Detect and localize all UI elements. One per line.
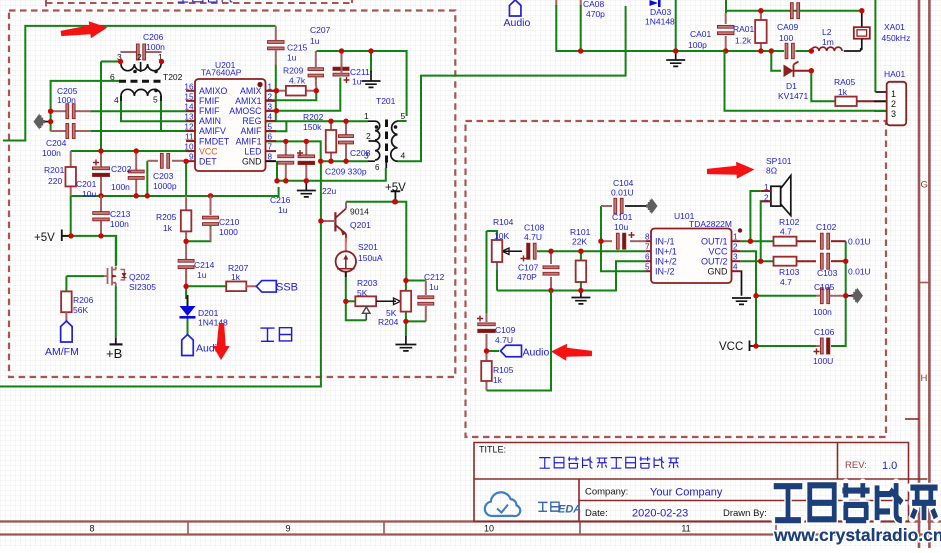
ground on rail — [580, 291, 582, 298]
potentiometer R104 — [492, 240, 503, 262]
svg-text:4: 4 — [268, 112, 273, 121]
svg-text:3: 3 — [268, 102, 273, 111]
svg-text:1.2k: 1.2k — [735, 36, 752, 46]
svg-text:7: 7 — [268, 143, 273, 152]
transformer T201 — [368, 120, 398, 169]
title block frame — [474, 443, 927, 522]
U101 pin 4 — [732, 270, 741, 272]
svg-text:13: 13 — [184, 112, 194, 121]
svg-text:2: 2 — [764, 194, 769, 203]
svg-text:450kHz: 450kHz — [882, 33, 911, 43]
capacitor CA01 100p — [725, 13, 727, 24]
wire: C104 — [601, 205, 612, 207]
svg-text:R201: R201 — [44, 165, 65, 175]
svg-text:C214: C214 — [194, 260, 215, 270]
wire top row y=10.7 — [725, 0, 727, 13]
svg-text:2020-02-23: 2020-02-23 — [632, 508, 688, 520]
capacitor C202 — [135, 151, 137, 170]
resistor R105 1k — [486, 351, 488, 361]
svg-text:+B: +B — [106, 346, 122, 361]
ground below 22u — [305, 181, 307, 190]
svg-text:9: 9 — [189, 153, 194, 162]
wire: vertical x=101 — [100, 62, 102, 152]
wire: Q201 base node — [321, 220, 335, 222]
EasyEDA logo — [485, 492, 520, 516]
svg-text:SI2305: SI2305 — [129, 282, 156, 292]
svg-text:G: G — [921, 180, 928, 191]
svg-text:C104: C104 — [613, 178, 634, 188]
svg-text:R203: R203 — [357, 278, 378, 288]
capacitor C107 470P — [543, 266, 559, 269]
svg-text:1000p: 1000p — [153, 181, 177, 191]
U201 pin 2 — [266, 100, 277, 102]
svg-text:IN+/2: IN+/2 — [655, 257, 677, 267]
svg-text:5K: 5K — [357, 288, 368, 298]
svg-text:1k: 1k — [231, 272, 241, 282]
U201 pin 6 — [266, 140, 277, 142]
svg-text:C102: C102 — [816, 222, 837, 232]
IC U101 TDA2822M — [651, 229, 732, 284]
ground below R204 — [405, 336, 407, 344]
svg-text:EDA: EDA — [558, 504, 581, 516]
svg-text:AMIXO: AMIXO — [199, 86, 228, 96]
svg-text:1: 1 — [733, 233, 738, 242]
svg-text:OUT/2: OUT/2 — [701, 257, 728, 267]
svg-text:470P: 470P — [517, 272, 537, 282]
wire: C203 left bend — [146, 161, 148, 196]
svg-text:AMIN: AMIN — [199, 116, 221, 126]
svg-text:C103: C103 — [817, 268, 838, 278]
svg-text:220: 220 — [48, 176, 62, 186]
svg-text:CA09: CA09 — [777, 22, 799, 32]
svg-text:OUT/1: OUT/1 — [701, 237, 728, 247]
wire: pin4/REG row to T201 pin1 — [266, 120, 368, 122]
svg-text:100n: 100n — [57, 95, 76, 105]
capacitor C102 — [820, 233, 823, 249]
connector HA01 — [874, 0, 876, 92]
stray dot above pin1 — [738, 228, 742, 232]
junction dots +5V row — [68, 233, 73, 238]
svg-text:C204: C204 — [46, 138, 67, 148]
wire: C101 to pin8 — [601, 240, 612, 242]
svg-text:RA05: RA05 — [834, 77, 856, 87]
svg-text:HA01: HA01 — [884, 69, 906, 79]
U201 pin 8 — [266, 160, 277, 162]
wire: R202 ties — [330, 121, 332, 130]
label 第二本振 (cut) — [177, 0, 189, 2]
svg-text:1: 1 — [364, 111, 369, 121]
wire: ground rail y=290.5 — [497, 261, 646, 290]
svg-text:R105: R105 — [493, 365, 514, 375]
svg-text:H: H — [921, 373, 928, 384]
U201 pin 13 — [186, 120, 195, 122]
capacitor C211 (1u electrolytic) — [341, 62, 343, 66]
capacitor CA09 100 (series) — [785, 43, 788, 59]
svg-text:1u: 1u — [310, 36, 320, 46]
svg-text:C108: C108 — [524, 223, 545, 233]
svg-text:2: 2 — [268, 92, 273, 101]
svg-text:RA01: RA01 — [733, 24, 755, 34]
netport Audio (top) — [509, 0, 521, 16]
svg-text:Audio: Audio — [523, 347, 550, 359]
svg-text:C101: C101 — [612, 212, 633, 222]
wire: T202 pin1 to C206 junction — [161, 62, 163, 65]
svg-text:REV:: REV: — [845, 460, 867, 471]
sheet frame right border — [919, 0, 929, 548]
wire: C216 ties — [285, 141, 287, 155]
wire: R204 top/bottom ties — [405, 281, 407, 292]
wire: C211 top tie — [341, 51, 343, 66]
U101 pin 7 — [646, 250, 651, 252]
ground at row 51 — [675, 51, 677, 60]
svg-text:XA01: XA01 — [884, 22, 905, 32]
svg-text:AM/FM: AM/FM — [45, 346, 79, 358]
svg-text:AMIF: AMIF — [240, 126, 262, 136]
wire D1 right up/down — [811, 71, 835, 102]
svg-text:CA08: CA08 — [583, 0, 605, 9]
svg-text:6: 6 — [375, 163, 380, 172]
capacitor C207 — [315, 51, 317, 67]
svg-text:6: 6 — [110, 72, 115, 82]
svg-text:R101: R101 — [570, 227, 591, 237]
svg-text:R204: R204 — [378, 317, 399, 327]
netport AM/FM — [61, 321, 73, 342]
svg-text:CA01: CA01 — [690, 29, 712, 39]
svg-text:4.7: 4.7 — [780, 227, 792, 237]
capacitor 22u electrolytic — [298, 155, 315, 158]
svg-text:Your Company: Your Company — [650, 487, 723, 499]
svg-text:1000: 1000 — [219, 227, 238, 237]
wire: speaker pin2 to OUT/2 — [741, 260, 774, 262]
resistor R206 — [61, 291, 72, 312]
svg-text:IN-/1: IN-/1 — [655, 237, 675, 247]
svg-text:FMIF: FMIF — [199, 106, 220, 116]
gray ground arrow left of C204 — [45, 121, 51, 123]
resistor R101 22K — [576, 261, 587, 283]
svg-text:2: 2 — [366, 131, 371, 141]
svg-text:11: 11 — [681, 524, 690, 534]
capacitor C216 — [278, 155, 294, 158]
wire: long top wire to C215 — [3, 26, 276, 141]
svg-text:3: 3 — [364, 151, 369, 161]
svg-text:150uA: 150uA — [358, 253, 383, 263]
wire: R201 bottom to +5V row — [70, 196, 72, 236]
svg-text:100n: 100n — [813, 307, 832, 317]
svg-text:AMIF1: AMIF1 — [236, 136, 262, 146]
junction dots REG row — [328, 119, 333, 124]
svg-text:www.crystalradio.cn: www.crystalradio.cn — [773, 525, 941, 545]
svg-text:11: 11 — [185, 133, 194, 142]
potentiometer R204 — [401, 291, 412, 312]
wire: ground stub near C211 — [370, 51, 372, 72]
sheet frame bottom border — [0, 522, 941, 535]
svg-text:4.7U: 4.7U — [524, 232, 542, 242]
netport Audio (below D201) — [182, 335, 194, 356]
wire: C212 parallel ties — [406, 280, 426, 282]
capacitor C210 — [210, 196, 212, 215]
svg-text:DET: DET — [199, 156, 217, 166]
svg-text:22K: 22K — [572, 237, 587, 247]
svg-text:R104: R104 — [493, 217, 514, 227]
red arrow down (annotation) — [213, 323, 230, 360]
wire: C204 row to pin12 — [90, 130, 195, 132]
svg-text:1: 1 — [891, 89, 896, 99]
capacitor C204 — [51, 130, 66, 132]
junction dots pin1 node — [274, 88, 279, 93]
resistor R102 4.7 — [774, 237, 797, 246]
svg-text:AMIX: AMIX — [240, 86, 262, 96]
svg-text:56K: 56K — [73, 305, 88, 315]
U201 pin 9 — [186, 160, 195, 162]
svg-text:100n: 100n — [111, 182, 130, 192]
wire: C207 bottom tie — [315, 78, 317, 87]
svg-text:C211: C211 — [350, 67, 370, 77]
svg-text:C212: C212 — [424, 272, 445, 282]
svg-text:4.7k: 4.7k — [289, 76, 306, 86]
wire: Q202 source down to +B — [115, 286, 117, 338]
resistor R103 4.7 — [774, 257, 797, 266]
svg-text:IN-/2: IN-/2 — [655, 267, 675, 277]
dashed box fragment (second LO) top — [46, 0, 352, 7]
svg-text:AMIX1: AMIX1 — [235, 96, 262, 106]
capacitor C206 — [121, 51, 137, 53]
ground near C211 — [370, 71, 372, 81]
svg-text:1k: 1k — [838, 87, 848, 97]
wire: D201 bottom to Audio port — [187, 318, 189, 335]
svg-text:3: 3 — [733, 253, 738, 262]
diode D201 1N4148 — [187, 295, 189, 306]
arrow into R204 wiper — [376, 300, 396, 302]
svg-text:10u: 10u — [82, 189, 96, 199]
svg-text:R205: R205 — [156, 212, 177, 222]
junction dots audio input net — [548, 249, 553, 254]
svg-text:1m: 1m — [822, 37, 834, 47]
U201 pin 5 — [266, 130, 277, 132]
svg-text:16: 16 — [184, 82, 194, 91]
U101 pin 5 — [646, 270, 651, 272]
svg-text:3: 3 — [891, 109, 896, 119]
wire: pin6 AMIF1 row — [266, 141, 321, 161]
transformer T202 — [119, 62, 163, 102]
wire: right ground vertical x=845.7 — [831, 241, 846, 346]
red arrow left (audio annotation) — [551, 344, 592, 361]
svg-text:1u: 1u — [287, 53, 297, 63]
svg-text:C105: C105 — [814, 282, 835, 292]
wire: C208 ties — [345, 121, 347, 135]
svg-text:REG: REG — [242, 116, 261, 126]
svg-text:C216: C216 — [270, 195, 291, 205]
svg-text:1: 1 — [268, 82, 273, 91]
svg-text:AMOSC: AMOSC — [229, 106, 262, 116]
red arrow right (speaker annotation) — [707, 162, 755, 179]
capacitor C203 — [147, 160, 158, 162]
junction dots C205/C204 — [48, 109, 53, 114]
wire: VCC row y=151 from R201 to pin10 — [71, 150, 195, 152]
wire: audio in vertical R104/C109 — [486, 231, 488, 313]
wire: C104/C101/pin5 node vertical — [601, 206, 646, 271]
wire: VCC pin2 down — [741, 251, 756, 346]
svg-text:R209: R209 — [283, 66, 304, 76]
resistor R209 — [286, 86, 306, 96]
svg-text:4: 4 — [401, 151, 406, 161]
svg-text:Company:: Company: — [585, 487, 628, 498]
U201 pin 10 — [186, 150, 195, 152]
wire: R104 top bend — [487, 231, 498, 240]
capacitor C109 4.7U — [486, 313, 488, 322]
svg-text:4.7: 4.7 — [780, 277, 792, 287]
varactor D1 KV1471 — [771, 51, 781, 71]
svg-text:Q201: Q201 — [350, 220, 371, 230]
svg-text:D1: D1 — [786, 81, 797, 91]
netport SSB — [256, 281, 276, 293]
label 中放 — [260, 328, 274, 341]
wire: +5V row y=236 — [63, 236, 116, 265]
svg-text:10: 10 — [484, 524, 494, 534]
crystal XA01 450kHz — [844, 50, 861, 52]
svg-text:0.01U: 0.01U — [611, 188, 634, 198]
wire: T202 pin3 to C206 junction — [120, 62, 122, 65]
svg-text:5: 5 — [645, 263, 650, 272]
svg-text:1u: 1u — [352, 77, 362, 87]
U201 pin 12 — [186, 130, 195, 132]
svg-text:S201: S201 — [358, 242, 378, 252]
potentiometer R203 — [355, 296, 376, 306]
svg-text:SSB: SSB — [276, 282, 298, 294]
svg-text:D201: D201 — [198, 308, 219, 318]
svg-text:8: 8 — [268, 153, 273, 162]
svg-text:4: 4 — [733, 263, 738, 272]
junction dots right side — [748, 239, 753, 244]
U201 pin 14 — [186, 110, 195, 112]
wire: pin1 stub row — [266, 90, 276, 92]
wire: pin9 vertical to row — [185, 161, 187, 197]
svg-text:100n: 100n — [110, 219, 129, 229]
svg-text:1N4148: 1N4148 — [645, 17, 675, 27]
U101 pin 2 — [732, 250, 741, 252]
capacitor C208 — [339, 135, 354, 138]
svg-text:Date:: Date: — [585, 508, 608, 519]
current source S201 — [336, 251, 356, 271]
wire: T202 pin4 down to pin13 row — [121, 96, 195, 121]
svg-text:100n: 100n — [42, 148, 61, 158]
svg-text:10u: 10u — [614, 222, 628, 232]
wire: C210 bottom bend to junction — [186, 226, 210, 241]
wire: pin8 GND down — [276, 161, 278, 181]
svg-text:0.01U: 0.01U — [848, 267, 871, 277]
wire: C108 right to node — [537, 250, 646, 252]
svg-text:C209 330p: C209 330p — [325, 167, 367, 177]
svg-text:IN+/1: IN+/1 — [655, 247, 677, 257]
resistor R201 — [70, 151, 72, 167]
svg-text:1u: 1u — [197, 270, 207, 280]
resistor RA05 1k — [835, 97, 856, 106]
svg-text:R202: R202 — [303, 112, 324, 122]
svg-text:1.0: 1.0 — [882, 460, 897, 472]
svg-text:Drawn By:: Drawn By: — [723, 508, 767, 519]
junction dots row 51/10.7 — [578, 48, 583, 53]
wire: C214 bottom to R207 row — [185, 271, 187, 299]
wire: R105 bottom loop — [487, 291, 552, 391]
svg-text:12: 12 — [184, 123, 194, 132]
watermark 矿石收音机 — [774, 486, 803, 520]
wire: gate row Q202 — [66, 275, 104, 277]
title text 二次变频全波段收音机 — [539, 458, 550, 469]
svg-text:T202: T202 — [163, 72, 183, 82]
svg-text:TITLE:: TITLE: — [479, 445, 506, 455]
svg-text:C107: C107 — [518, 263, 539, 273]
svg-text:GND: GND — [242, 156, 262, 166]
svg-text:15: 15 — [184, 92, 194, 101]
svg-text:R102: R102 — [779, 217, 800, 227]
svg-text:1k: 1k — [163, 223, 173, 233]
svg-text:+5V: +5V — [34, 232, 55, 244]
capacitor C201 (10u electrolytic) — [100, 151, 102, 168]
U101 pin 1 — [732, 240, 741, 242]
svg-text:T201: T201 — [376, 96, 396, 106]
wire: row y=195.8 — [71, 187, 279, 196]
U201 pin 3 — [266, 110, 277, 112]
wire: R206 top — [65, 276, 67, 292]
svg-text:100n: 100n — [146, 42, 165, 52]
wire: R205/C214 node — [185, 231, 187, 241]
wire: T202 pin5 down to C204/pin12 row — [160, 96, 162, 131]
svg-text:1u: 1u — [278, 205, 288, 215]
capacitor C205 — [51, 110, 66, 112]
wire: wiper to C108 — [503, 250, 522, 252]
capacitor (cut, series top row) — [790, 3, 793, 19]
svg-text:C201: C201 — [76, 179, 97, 189]
wire: +5V rail y=201.7 — [346, 202, 406, 281]
svg-text:C203: C203 — [153, 171, 174, 181]
capacitor C105 — [820, 288, 823, 304]
U201 pin 7 — [266, 150, 277, 152]
wire: C215 bottom to pin1 node vertical — [275, 64, 277, 121]
svg-text:100p: 100p — [688, 40, 707, 50]
wire: ground row y=180.8 — [277, 168, 386, 181]
svg-text:R206: R206 — [73, 295, 94, 305]
capacitor C104 — [614, 198, 617, 214]
svg-text:KV1471: KV1471 — [778, 91, 809, 101]
wire: VCC rail y=346 — [756, 345, 816, 347]
svg-text:100: 100 — [779, 33, 793, 43]
svg-text:C106: C106 — [814, 327, 835, 337]
U101 pin 3 — [732, 260, 741, 262]
svg-text:14: 14 — [184, 102, 194, 111]
IC U201 TA7640AP — [195, 79, 266, 171]
junction dots row151/row196 — [98, 148, 103, 153]
svg-text:8Ω: 8Ω — [766, 166, 777, 176]
svg-text:6: 6 — [268, 133, 273, 142]
svg-text:1k: 1k — [493, 375, 503, 385]
svg-text:6: 6 — [645, 253, 650, 262]
svg-text:C109: C109 — [495, 325, 516, 335]
svg-text:470p: 470p — [586, 9, 605, 19]
svg-text:VCC: VCC — [708, 247, 728, 257]
wire: R207 row — [186, 285, 226, 287]
capacitor C103 — [820, 253, 823, 269]
wire: C207 top row — [316, 51, 406, 116]
svg-text:9: 9 — [285, 524, 290, 534]
svg-text:C215: C215 — [287, 43, 308, 53]
svg-text:DA03: DA03 — [650, 7, 672, 17]
transistor Q201 9014 — [334, 212, 336, 231]
+B power flag — [115, 338, 117, 344]
wire: 22u ties — [305, 141, 307, 155]
svg-text:1: 1 — [764, 183, 769, 192]
U101 pin 8 — [646, 240, 651, 242]
svg-text:22u: 22u — [322, 186, 336, 196]
resistor RA01 1.2k — [760, 11, 762, 20]
